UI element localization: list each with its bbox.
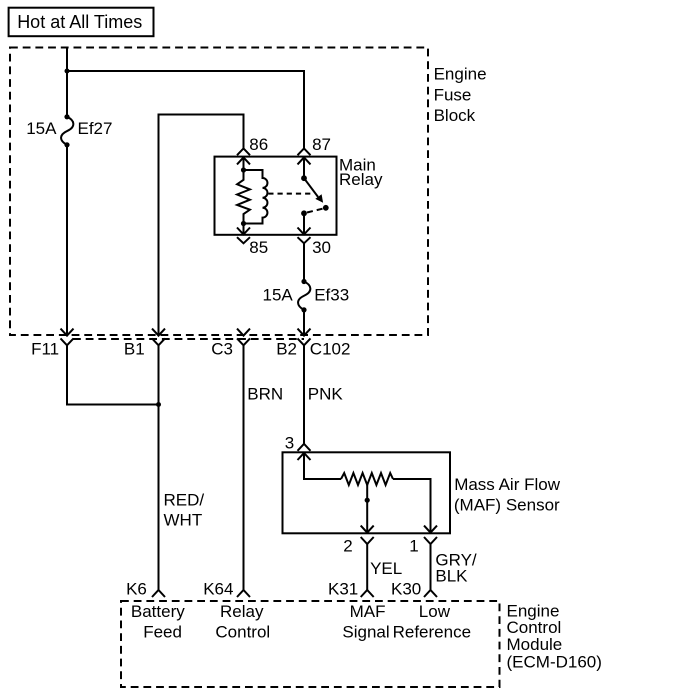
svg-text:Reference: Reference — [393, 622, 471, 641]
svg-text:15A: 15A — [26, 119, 57, 138]
Engine Control Module dashed box — [121, 601, 500, 687]
connector B1 male arrow — [152, 329, 165, 336]
svg-text:(ECM-D160): (ECM-D160) — [507, 653, 602, 672]
fuse Ef27 15A — [64, 114, 69, 119]
wire: F11 down, over to battery-feed wire — [67, 345, 159, 404]
wire: wiper tap to pin 2 — [366, 484, 368, 532]
svg-text:3: 3 — [285, 433, 294, 452]
wire: GRY/BLK low reference to ECM K30 — [430, 544, 432, 590]
svg-text:1: 1 — [409, 537, 418, 556]
connector MAF pin 1 female fork — [424, 537, 437, 544]
svg-text:30: 30 — [312, 238, 331, 257]
connector C3 female fork — [237, 338, 250, 345]
svg-text:Relay: Relay — [220, 602, 264, 621]
svg-text:C102: C102 — [310, 340, 351, 359]
svg-text:K6: K6 — [126, 580, 147, 599]
wire: PNK to MAF sensor pin 3 — [303, 345, 305, 444]
svg-text:K64: K64 — [203, 580, 233, 599]
connector MAF pin 2 female fork — [361, 537, 374, 544]
resistor: MAF sensing element — [341, 473, 393, 485]
svg-text:(MAF) Sensor: (MAF) Sensor — [454, 495, 560, 514]
svg-text:Mass Air Flow: Mass Air Flow — [454, 475, 561, 494]
connector F11 female fork — [61, 338, 74, 345]
wire: BRN relay control to ECM K64 — [243, 345, 245, 590]
svg-text:WHT: WHT — [164, 511, 203, 530]
svg-text:Engine: Engine — [434, 65, 487, 84]
node: coil bottom — [241, 221, 246, 226]
svg-text:MAF: MAF — [350, 602, 386, 621]
svg-text:2: 2 — [343, 537, 352, 556]
wire: pin 3 into sensing element — [304, 453, 341, 479]
inductor: relay coil winding — [244, 170, 268, 224]
svg-text:F11: F11 — [31, 340, 59, 359]
connector: relay pin 85 female fork — [237, 237, 250, 243]
svg-text:K30: K30 — [391, 580, 421, 599]
connector F11 male arrow — [61, 329, 74, 336]
wire: fuse Ef33 to connector B2 — [303, 310, 305, 335]
connector K31 female fork — [361, 590, 374, 597]
connector: relay pin 87 male arrow — [298, 157, 311, 164]
svg-text:Battery: Battery — [131, 602, 185, 621]
wire: coil bottom to pin 85 — [243, 224, 245, 235]
svg-text:PNK: PNK — [308, 385, 344, 404]
connector: relay pin 85 male arrow — [237, 228, 250, 235]
connector K30 female fork — [424, 590, 437, 597]
svg-text:Low: Low — [419, 602, 451, 621]
svg-text:Ef27: Ef27 — [78, 119, 113, 138]
connector: relay pin 30 male arrow — [298, 228, 311, 235]
svg-text:B1: B1 — [124, 340, 145, 359]
svg-text:RED/: RED/ — [164, 491, 205, 510]
resistor: relay coil parallel resistor — [237, 170, 250, 224]
in-line connector C102 dashed line — [73, 338, 304, 340]
node: junction with K6 wire — [156, 402, 161, 407]
wire: fuse Ef27 down to connector F11 — [66, 145, 68, 335]
svg-text:C3: C3 — [211, 340, 233, 359]
wire: pin 87 stem to switch — [303, 157, 305, 178]
Hot at All Times label box — [9, 8, 154, 37]
svg-text:Feed: Feed — [143, 622, 182, 641]
Engine Fuse Block dashed box — [10, 48, 428, 336]
connector C3 male arrow — [237, 329, 250, 336]
wire: rail to relay pin 86 — [159, 115, 244, 336]
svg-text:Ef33: Ef33 — [314, 285, 349, 304]
connector MAF pin 3 female fork — [298, 444, 311, 451]
svg-text:Control: Control — [215, 622, 270, 641]
svg-text:Fuse: Fuse — [434, 85, 472, 104]
svg-text:Block: Block — [434, 106, 476, 125]
node: top rail junction — [65, 69, 70, 74]
svg-text:BLK: BLK — [435, 566, 468, 585]
relay U1 box — [215, 157, 337, 235]
connector MAF pin 1 male arrow — [424, 526, 437, 533]
wire: switch to pin 30 — [303, 213, 305, 234]
connector K64 female fork — [237, 590, 250, 597]
svg-text:87: 87 — [312, 135, 331, 154]
connector B1 female fork — [152, 338, 165, 345]
relay switch: moving contact arm — [304, 178, 318, 197]
svg-text:Module: Module — [507, 635, 563, 654]
connector B2/C102 female fork — [298, 338, 311, 345]
connector MAF pin 2 male arrow — [361, 526, 374, 533]
svg-text:YEL: YEL — [370, 559, 402, 578]
wire: element to pin 1 leg — [393, 479, 431, 532]
connector B2/C102 male arrow — [298, 329, 311, 336]
relay switch: dashed link to pin 30 — [307, 208, 324, 212]
svg-text:K31: K31 — [328, 580, 358, 599]
wire: top rail to relay pin 87 — [67, 71, 304, 149]
relay actuator dashed line — [268, 193, 311, 195]
svg-text:85: 85 — [249, 238, 268, 257]
relay switch: throw contact dot — [323, 205, 329, 211]
relay switch: common dot pin 87 — [301, 175, 307, 181]
MAF sensor box — [283, 452, 451, 533]
wire: pin 30 down to fuse Ef33 — [303, 243, 305, 281]
svg-text:B2: B2 — [276, 340, 297, 359]
svg-text:Relay: Relay — [339, 170, 383, 189]
connector: relay pin 86 female fork — [237, 148, 250, 155]
connector K6 female fork — [152, 590, 165, 597]
svg-text:86: 86 — [249, 135, 268, 154]
svg-text:BRN: BRN — [247, 385, 283, 404]
node: coil top — [241, 167, 246, 172]
connector: relay pin 86 male arrow — [237, 157, 250, 164]
svg-text:Hot at All Times: Hot at All Times — [17, 12, 142, 32]
connector MAF pin 3 male arrow — [298, 453, 311, 460]
svg-text:Signal: Signal — [342, 622, 389, 641]
fuse Ef33 15A — [301, 279, 306, 284]
wire: RED/WHT battery feed to ECM K6 — [158, 345, 160, 590]
wire: battery feed from top into fuse Ef27 — [66, 48, 68, 117]
connector: relay pin 30 female fork — [298, 237, 311, 243]
relay switch: lower contact dot — [301, 210, 307, 216]
connector: relay pin 87 female fork — [298, 148, 311, 155]
wire: pin 86 stem into relay — [243, 157, 245, 170]
node: wiper tap dot — [365, 498, 370, 503]
svg-text:15A: 15A — [263, 285, 294, 304]
wire: YEL MAF signal to ECM K31 — [366, 544, 368, 590]
